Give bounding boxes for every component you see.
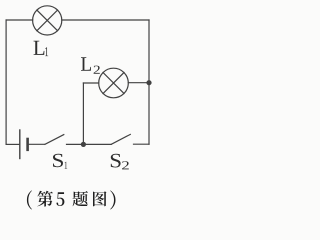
- label L1 letter L: [34, 41, 45, 55]
- wire right vertical: [148, 20, 150, 144]
- switch S2 blade: [112, 134, 131, 144]
- wire top left segment: [6, 19, 33, 21]
- battery short plate: [26, 139, 29, 150]
- wire node A to S2: [83, 143, 111, 145]
- battery long plate: [19, 130, 21, 159]
- wire S1 contact to node A: [67, 143, 84, 145]
- caption char 图: [93, 191, 106, 206]
- wire top right segment: [62, 19, 149, 21]
- caption (第5题图): [27, 190, 116, 209]
- caption char （: [27, 190, 32, 209]
- node A junction dot: [81, 142, 86, 147]
- node B junction dot: [146, 80, 151, 85]
- switch S1 blade: [45, 135, 64, 145]
- wire L2 to node B: [128, 82, 149, 84]
- label L2 subscript 2: [94, 66, 100, 74]
- label S1 subscript 1: [65, 162, 68, 169]
- label S1 letter S: [53, 154, 63, 167]
- caption char 题: [73, 191, 88, 206]
- wire battery to S1: [29, 143, 45, 145]
- wire S2 contact to bottom right corner: [134, 143, 150, 145]
- label S2 subscript 2: [122, 161, 129, 169]
- caption char 5: [56, 192, 64, 206]
- wire L2 branch horizontal: [83, 82, 98, 84]
- caption char 第: [37, 191, 53, 207]
- wire L2 branch vertical: [82, 83, 84, 144]
- lamp L2: [99, 68, 129, 98]
- label L2 letter L: [81, 57, 91, 70]
- wire bottom left to battery: [6, 143, 19, 145]
- wire left vertical: [5, 20, 7, 144]
- label L1 subscript 1: [45, 47, 48, 56]
- label S2 letter S: [111, 154, 121, 168]
- lamp L1: [33, 6, 62, 35]
- caption char ）: [110, 190, 115, 209]
